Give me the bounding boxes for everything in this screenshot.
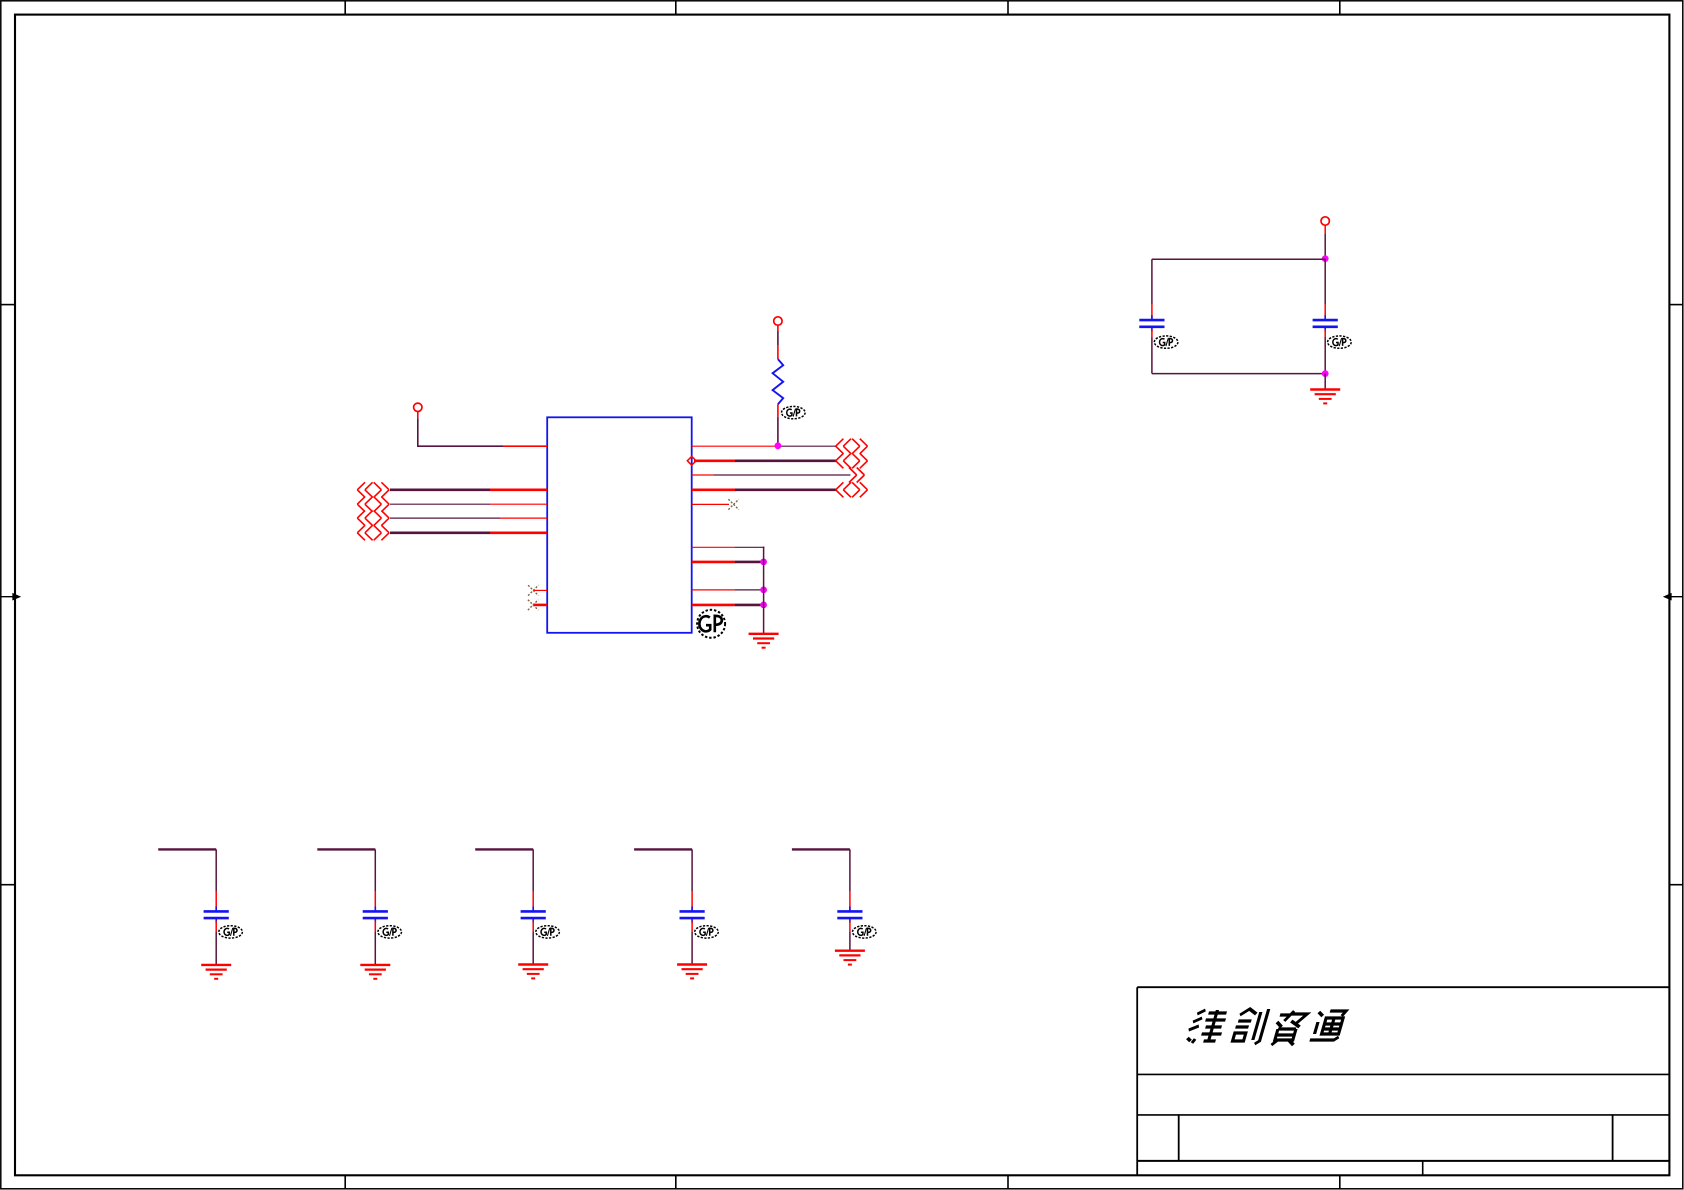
off-page connector right A bbox=[836, 439, 868, 454]
off-page connector right C bbox=[849, 468, 864, 483]
wire: gnd net vertical bbox=[763, 547, 765, 634]
off-page connector left B bbox=[357, 497, 389, 512]
junction gnd net 2 bbox=[760, 587, 767, 594]
off-page connector left D bbox=[357, 525, 389, 540]
junction resistor node bbox=[775, 442, 782, 449]
wire: stub to ground bbox=[1324, 374, 1326, 389]
ground G7 bbox=[835, 951, 865, 965]
wire: pin R4 bbox=[692, 488, 836, 491]
IC U1 bbox=[547, 417, 692, 633]
label G/P for C1 bbox=[1154, 336, 1178, 348]
pin arrow input R2 bbox=[687, 456, 696, 465]
wire: branch 3 feed bbox=[475, 849, 533, 910]
capacitor C3 bbox=[204, 907, 229, 923]
wire: pin R5 stub bbox=[692, 503, 729, 505]
capacitor C2 bbox=[1313, 315, 1338, 331]
wire: pin L1 net bbox=[417, 412, 547, 447]
wire: pin L2 bbox=[390, 488, 547, 491]
wire: pin R1 net bbox=[692, 445, 836, 447]
ground G4 bbox=[360, 965, 390, 979]
junction node top bbox=[1322, 255, 1329, 262]
no-connect X2 bbox=[528, 600, 538, 610]
junction node bottom bbox=[1322, 370, 1329, 377]
label G/P for C4 bbox=[378, 926, 402, 938]
no-connect X3 bbox=[728, 499, 738, 509]
wire: left branch upper bbox=[1151, 259, 1153, 319]
label G/P for C5 bbox=[536, 926, 560, 938]
label G/P for C2 bbox=[1328, 336, 1352, 348]
wire: branch 4 feed bbox=[634, 849, 692, 910]
wire: branch 5 to ground bbox=[849, 921, 851, 951]
company logo text bbox=[1184, 1009, 1346, 1045]
title block bbox=[1137, 987, 1669, 1175]
label G/P for C7 bbox=[853, 926, 877, 938]
label G/P for C6 bbox=[695, 926, 719, 938]
capacitor C6 bbox=[680, 907, 705, 923]
wire: pin R6 bbox=[692, 546, 765, 548]
wire: terminal to resistor bbox=[777, 325, 779, 359]
wire: pin R7 bbox=[692, 561, 764, 564]
wire: pin R9 bbox=[692, 604, 764, 607]
capacitor C5 bbox=[521, 907, 546, 923]
terminal J2 bbox=[1321, 217, 1329, 225]
junction gnd net 3 bbox=[760, 602, 767, 609]
wire: pin R8 bbox=[692, 589, 764, 591]
wire: terminal to node bbox=[1324, 225, 1326, 258]
wire: bottom horizontal bbox=[1152, 373, 1325, 375]
wire: pin L4 bbox=[390, 517, 547, 519]
wire: branch 2 to ground bbox=[374, 921, 376, 965]
wire: resistor to node bbox=[777, 404, 779, 446]
off-page connector right B bbox=[836, 453, 868, 468]
wire: branch 4 to ground bbox=[691, 921, 693, 964]
capacitor C1 bbox=[1139, 315, 1164, 331]
ground G3 bbox=[201, 965, 231, 979]
wire: branch 3 to ground bbox=[532, 921, 534, 964]
off-page connector left C bbox=[357, 511, 389, 526]
wire: branch 2 feed bbox=[317, 849, 375, 910]
wire: pin R2 bbox=[694, 459, 836, 462]
capacitor C7 bbox=[837, 907, 862, 923]
wire: right branch upper bbox=[1324, 259, 1326, 319]
terminal J1 bbox=[774, 317, 782, 325]
terminal J3 bbox=[414, 403, 422, 411]
no-connect X1 bbox=[528, 585, 538, 595]
wire: right branch lower bbox=[1324, 329, 1326, 373]
wire: branch 5 feed bbox=[792, 849, 850, 910]
label GP circle bbox=[697, 610, 725, 638]
label G/P for C3 bbox=[219, 926, 243, 938]
wire: branch 1 to ground bbox=[215, 921, 217, 965]
ground G6 bbox=[677, 965, 707, 979]
wire: pin L3 bbox=[390, 503, 547, 505]
wire: pin L5 bbox=[390, 531, 547, 534]
resistor R1 bbox=[773, 359, 784, 404]
ground G5 bbox=[518, 965, 548, 979]
wire: branch 1 feed bbox=[158, 849, 216, 910]
wire: top horizontal bbox=[1152, 258, 1325, 260]
ground G2 bbox=[749, 634, 779, 648]
wire: pin R3 bbox=[692, 474, 851, 476]
junction gnd net 1 bbox=[760, 559, 767, 566]
capacitor C4 bbox=[363, 907, 388, 923]
label G/P for R1 bbox=[782, 406, 806, 418]
ground G1 bbox=[1310, 390, 1340, 404]
wire: pin L6 stub bbox=[534, 589, 547, 591]
wire: pin L7 stub bbox=[534, 604, 547, 607]
off-page connector left A bbox=[357, 482, 389, 497]
off-page connector right D bbox=[836, 482, 868, 497]
wire: left branch lower bbox=[1151, 329, 1153, 373]
